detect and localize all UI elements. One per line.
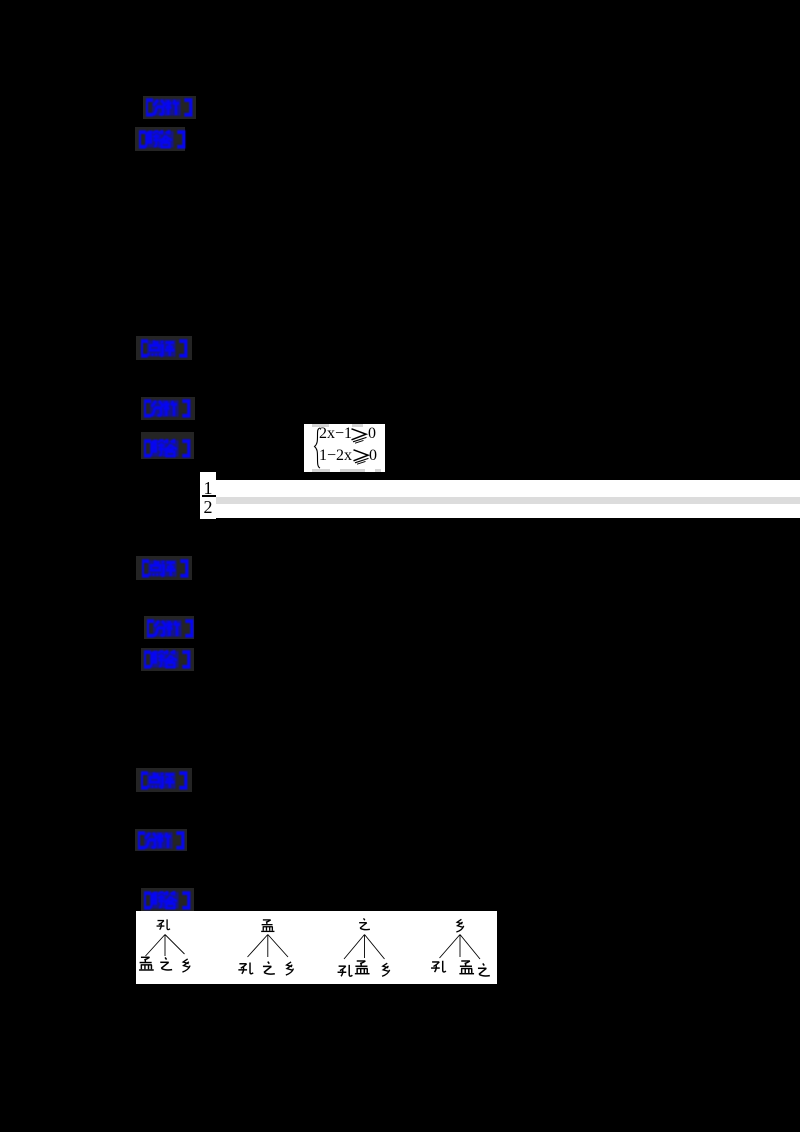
tree diagram box (136, 911, 497, 984)
tree 3 branch lines (344, 935, 365, 960)
tree 2 root meng (261, 920, 274, 931)
curly brace (312, 427, 322, 469)
tree 1 root kong (157, 919, 170, 929)
tree 4 branch lines (440, 935, 461, 959)
fraction bar (202, 495, 216, 497)
label 7: fenxi (144, 616, 194, 639)
label 8: jieda (141, 648, 194, 671)
label 4: fenxi (141, 397, 195, 420)
tree 3 children kong meng xiang (338, 965, 353, 976)
label 5: jieda (141, 432, 194, 459)
label 2: jieda (135, 127, 185, 151)
fraction half box (200, 472, 216, 519)
label 10: fenxi (135, 829, 187, 851)
label 1: fenxi (143, 96, 196, 119)
label 11: jieda (141, 888, 194, 912)
math system box (304, 424, 385, 472)
tree 1 branch lines (146, 935, 166, 957)
gray band (216, 497, 800, 504)
label 3: dianping (136, 336, 192, 360)
tree 2 branch lines (248, 935, 268, 958)
fraction numerator 1 (200, 478, 216, 499)
tree 3 root zhi (359, 918, 370, 929)
tree 4 children kong meng zhi (431, 961, 446, 972)
label 9: dianping (136, 768, 192, 792)
white band upper (216, 480, 800, 497)
tree 1 children meng zhi xiang (139, 957, 154, 970)
tree 2 children kong zhi xiang (238, 963, 253, 974)
white band lower (216, 504, 800, 518)
tree 4 root xiang (456, 919, 463, 932)
label 6: dianping (136, 556, 192, 580)
glyph definitions (hidden) (0, 0, 2, 2)
fraction denominator 2 (200, 497, 216, 518)
